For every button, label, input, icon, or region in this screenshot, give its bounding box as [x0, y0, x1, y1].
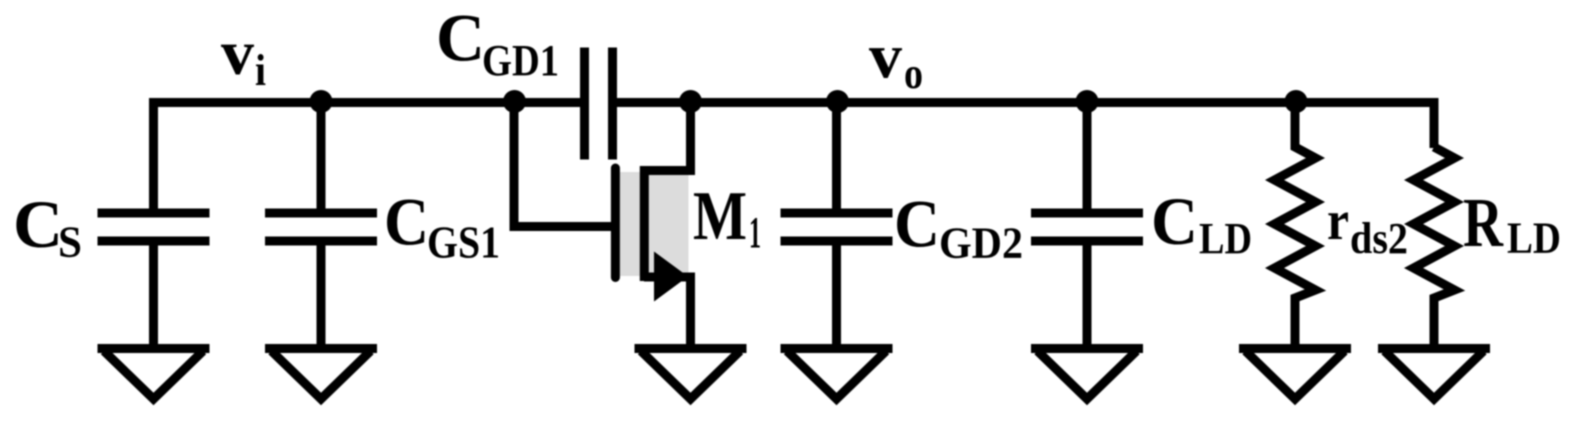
capacitor C_LD bottom plate [1031, 237, 1143, 246]
capacitor C_GS1 bottom plate [265, 237, 377, 246]
capacitor C_GD2 top plate [781, 209, 893, 218]
capacitor C_S top plate [98, 209, 210, 218]
svg-text:r: r [1327, 190, 1349, 252]
wire: C_LD lower stub [1083, 241, 1092, 352]
ground below C_LD [1031, 344, 1143, 353]
capacitor C_S bottom plate [98, 237, 210, 246]
svg-text:ds2: ds2 [1350, 214, 1408, 263]
svg-text:S: S [58, 218, 82, 267]
transistor M1 gate bar [611, 168, 620, 278]
capacitor C_GD1 left plate [580, 48, 589, 160]
node C_LD junction dot [1076, 90, 1099, 113]
wire: C_GS1 upper stub [317, 103, 326, 214]
capacitor C_GS1 top plate [265, 209, 377, 218]
svg-text:C: C [1151, 183, 1198, 259]
node drain/vo junction dot [679, 90, 702, 113]
capacitor C_GD2 bottom plate [781, 237, 893, 246]
ground below C_GD2 [781, 344, 893, 353]
wire: top rail right segment from Cgd1 right plate to R_LD corner [617, 103, 1434, 149]
svg-text:i: i [255, 46, 266, 95]
svg-text:v: v [869, 21, 902, 92]
svg-text:LD: LD [1199, 214, 1252, 263]
capacitor C_GD1 right plate [608, 48, 617, 160]
ground below r_ds2 [1239, 344, 1351, 353]
wire: C_S lower stub [149, 241, 158, 352]
svg-text:R: R [1463, 185, 1504, 262]
svg-text:C: C [436, 0, 485, 76]
svg-text:M: M [693, 178, 747, 255]
node C_GD2 junction dot [826, 90, 849, 113]
svg-text:o: o [904, 49, 923, 98]
svg-text:1: 1 [749, 208, 761, 257]
svg-text:C: C [384, 184, 429, 260]
transistor M1 body shading [620, 172, 689, 276]
ground below C_S [98, 344, 210, 353]
wire: top rail left segment from Cs corner to Cgd1 left plate [154, 103, 581, 214]
svg-text:C: C [13, 186, 63, 262]
resistor r_ds2 zigzag [1275, 103, 1316, 353]
wire: C_GS1 lower stub [317, 241, 326, 352]
svg-text:GS1: GS1 [427, 217, 500, 268]
svg-text:GD2: GD2 [939, 219, 1023, 268]
ground below C_GS1 [265, 344, 377, 353]
wire: C_GD2 lower stub [832, 241, 841, 352]
wire: gate drop from node at vi rail down and right to M1 gate [514, 98, 611, 227]
svg-text:C: C [894, 186, 940, 262]
wire: M1 source to ground [644, 277, 691, 352]
wire: C_LD upper stub [1083, 103, 1092, 214]
node vi junction dot [310, 90, 333, 113]
ground below M1 [635, 344, 747, 353]
resistor R_LD zigzag [1414, 147, 1455, 352]
ground below R_LD [1378, 344, 1490, 353]
svg-text:LD: LD [1507, 214, 1561, 263]
capacitor C_LD top plate [1031, 209, 1143, 218]
svg-text:GD1: GD1 [482, 36, 559, 85]
svg-text:v: v [221, 17, 254, 88]
node r_ds2 junction dot [1285, 90, 1308, 113]
transistor M1 channel bar [640, 166, 649, 281]
wire: M1 drain up to vo rail [644, 98, 691, 171]
transistor M1 source arrow [654, 252, 688, 302]
node gate junction dot [503, 90, 526, 113]
wire: C_GD2 upper stub [832, 103, 841, 214]
